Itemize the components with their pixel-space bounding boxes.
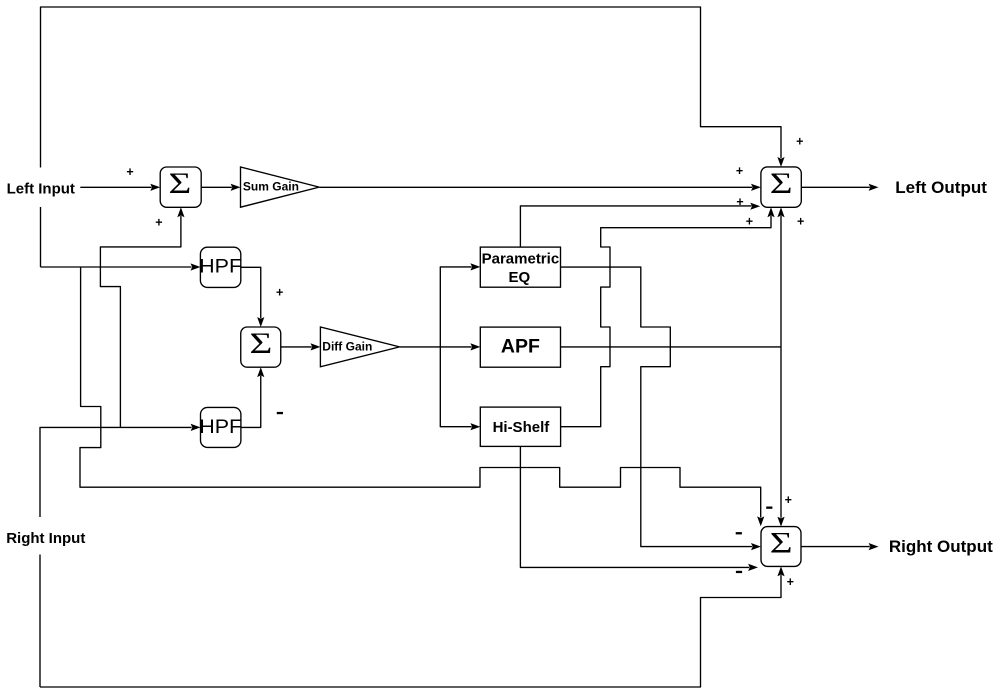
svg-text:+: + xyxy=(126,165,133,179)
node label Right Input xyxy=(0,517,92,555)
filter block APF xyxy=(480,327,560,367)
svg-text:+: + xyxy=(796,135,803,149)
svg-text:Diff Gain: Diff Gain xyxy=(322,339,372,353)
wire: sum S1 to Sum Gain xyxy=(201,184,240,191)
wire: Hi-Shelf bottom output to right output sum (bottom-left corner, minus) xyxy=(520,446,758,571)
wire: Left Input to sum S1 xyxy=(80,184,160,191)
wire: sum S2 to Diff Gain xyxy=(281,343,321,350)
summing node S1 (left/mid sum) xyxy=(160,166,201,207)
wire: APF output to vertical trunk x=781 xyxy=(561,346,782,348)
summing node S2 (difference sum) xyxy=(241,326,281,367)
svg-text:Hi-Shelf: Hi-Shelf xyxy=(493,419,551,436)
label - (S4 bottom-left input) xyxy=(736,571,742,573)
svg-text:+: + xyxy=(276,285,283,299)
svg-text:+: + xyxy=(797,215,804,229)
svg-text:Σ: Σ xyxy=(770,166,793,199)
filter block Hi-Shelf xyxy=(480,407,560,446)
label - (S2 bottom input) xyxy=(277,412,283,414)
wire: Right Input to HPF (bottom) xyxy=(40,424,201,687)
wire: Left Input up to top border, across and down into left output sum (top input) xyxy=(41,7,785,267)
svg-text:APF: APF xyxy=(501,336,540,358)
wire: trunk up into left output sum bottom (+) xyxy=(777,207,784,347)
svg-text:+: + xyxy=(787,575,794,589)
wire: Parametric EQ right output down to right output sum (left, minus) xyxy=(561,267,761,550)
label - (S4 top-left input) xyxy=(766,507,772,509)
summing node S3 (left output sum) xyxy=(761,166,801,207)
svg-text:+: + xyxy=(736,164,743,178)
wire: Left Input branch down to HPF (top) xyxy=(41,263,201,270)
wire: junction branch down to Hi-Shelf xyxy=(440,347,480,430)
summing node S4 (right output sum) xyxy=(761,526,801,567)
svg-text:Right Input: Right Input xyxy=(6,530,85,547)
wire: Left Input branch down to right output sum (top-left, minus) xyxy=(80,267,764,526)
svg-text:+: + xyxy=(155,215,162,229)
wire: right output sum to Right Output xyxy=(801,543,879,550)
svg-text:Right Output: Right Output xyxy=(889,537,993,556)
svg-text:HPF: HPF xyxy=(199,417,242,438)
label - (S4 left input) xyxy=(736,532,742,534)
svg-text:+: + xyxy=(746,215,753,229)
svg-text:Left Output: Left Output xyxy=(895,178,987,197)
svg-text:Sum Gain: Sum Gain xyxy=(243,180,299,194)
wire: HPF (top) to sum S2 top xyxy=(241,267,265,327)
wire: left output sum to Left Output xyxy=(801,184,878,191)
wire: Sum Gain to left output sum (left input) xyxy=(319,184,761,191)
svg-text:EQ: EQ xyxy=(509,269,531,286)
svg-text:Parametric: Parametric xyxy=(482,251,560,268)
wire: Parametric EQ top output to left output sum (bottom-left corner) xyxy=(520,203,760,248)
svg-text:HPF: HPF xyxy=(199,257,242,278)
filter block HPF (bottom) xyxy=(199,407,242,447)
svg-text:Σ: Σ xyxy=(168,166,191,199)
node label Left Input xyxy=(1,168,79,208)
wire: Hi-Shelf output up to left output sum (bottom-left riser, +) xyxy=(561,207,775,426)
svg-text:Σ: Σ xyxy=(770,526,793,559)
gain block Diff Gain xyxy=(320,327,399,367)
svg-text:+: + xyxy=(785,493,792,507)
filter block Parametric EQ xyxy=(480,247,560,287)
gain block Sum Gain xyxy=(241,167,320,207)
filter block HPF (top) xyxy=(199,247,242,287)
wire: trunk down into right output sum top (+) xyxy=(777,347,784,527)
wire: HPF (bottom) to sum S2 bottom xyxy=(241,367,264,427)
svg-text:Σ: Σ xyxy=(249,326,272,359)
wire: Diff Gain to APF (with junction at x=440) xyxy=(400,343,481,350)
svg-text:+: + xyxy=(736,195,743,209)
wire: Right Input along bottom border up into right output sum bottom (+) xyxy=(40,566,785,687)
wire: Right Input branch up to sum S1 bottom (+) xyxy=(100,207,184,427)
svg-text:Left Input: Left Input xyxy=(7,180,75,197)
wire: junction branch up to Parametric EQ xyxy=(440,263,480,347)
